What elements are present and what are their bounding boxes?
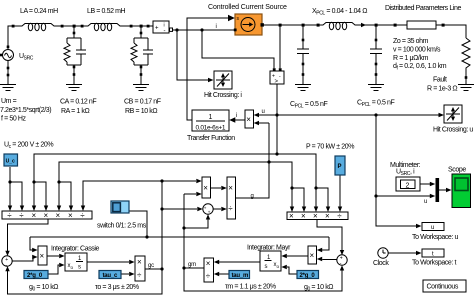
svg-text:×: × (68, 211, 73, 220)
svg-text:RB = 10 kΩ: RB = 10 kΩ (125, 108, 157, 115)
svg-text:×: × (203, 184, 208, 193)
svg-text:g: g (251, 194, 254, 200)
svg-text:f = 50 Hz: f = 50 Hz (1, 116, 27, 123)
svg-text:÷: ÷ (80, 211, 85, 220)
svg-text:LA = 0.24 mH: LA = 0.24 mH (20, 8, 58, 15)
svg-text:RA = 1 kΩ: RA = 1 kΩ (61, 108, 89, 115)
svg-text:switch 0/1: 2.5 ms: switch 0/1: 2.5 ms (97, 223, 147, 230)
svg-text:0.01e-6s+1: 0.01e-6s+1 (196, 125, 226, 132)
svg-text:7.2e3*1.5*sqrt(2/3): 7.2e3*1.5*sqrt(2/3) (0, 107, 51, 114)
svg-text:Distributed Parameters Line: Distributed Parameters Line (385, 5, 461, 12)
svg-text:R = 1e-3 Ω: R = 1e-3 Ω (427, 86, 457, 93)
svg-text:tau_c: tau_c (103, 273, 119, 279)
svg-text:×: × (206, 259, 211, 268)
svg-text:Zo = 35 ohm: Zo = 35 ohm (393, 38, 429, 45)
svg-text:÷: ÷ (228, 204, 233, 213)
svg-text:×: × (228, 184, 233, 193)
svg-text:×: × (32, 211, 37, 220)
svg-text:×: × (246, 115, 251, 124)
svg-text:+: + (208, 210, 211, 215)
svg-text:CB = 0.17 nF: CB = 0.17 nF (124, 99, 161, 106)
svg-text:Multimeter:: Multimeter: (390, 162, 421, 169)
svg-text:Continuous: Continuous (427, 284, 459, 291)
svg-text:2*g_0: 2*g_0 (300, 273, 316, 279)
svg-text:P: P (338, 164, 342, 170)
svg-text:×: × (44, 211, 49, 220)
svg-text:gm: gm (188, 262, 196, 268)
svg-text:×: × (137, 258, 142, 267)
svg-text:To Workspace: u: To Workspace: u (412, 234, 459, 241)
svg-text:s: s (265, 264, 268, 270)
svg-text:2: 2 (406, 183, 410, 190)
svg-text:Integrator: Mayr: Integrator: Mayr (247, 245, 291, 252)
svg-text:÷: ÷ (19, 211, 24, 220)
svg-text:÷: ÷ (337, 212, 342, 221)
svg-text:÷: ÷ (137, 271, 142, 280)
svg-text:u: u (262, 109, 265, 115)
svg-text:U_c: U_c (6, 159, 15, 165)
svg-text:+: + (204, 206, 207, 211)
svg-text:×: × (289, 212, 294, 221)
svg-text:×: × (56, 211, 61, 220)
svg-text:u: u (431, 225, 434, 231)
svg-text:R = 1 μΩ/km: R = 1 μΩ/km (393, 55, 429, 62)
svg-text:tau_m: tau_m (232, 273, 249, 279)
svg-text:Fault: Fault (433, 77, 447, 84)
svg-text:÷: ÷ (7, 211, 12, 220)
svg-text:gc: gc (148, 263, 154, 269)
svg-text:×: × (325, 212, 330, 221)
svg-text:i: i (236, 113, 237, 119)
svg-text:τm = 1.1 μs ± 20%: τm = 1.1 μs ± 20% (225, 284, 276, 291)
svg-text:×: × (310, 251, 315, 260)
svg-text:v = 100 000 km/s: v = 100 000 km/s (393, 47, 441, 54)
svg-text:Integrator: Cassie: Integrator: Cassie (51, 246, 100, 253)
svg-text:u: u (424, 199, 427, 205)
svg-text:Transfer Function: Transfer Function (187, 135, 235, 142)
svg-text:2*g_0: 2*g_0 (27, 273, 43, 279)
svg-text:P = 70 kW ± 20%: P = 70 kW ± 20% (306, 144, 354, 151)
svg-text:Clock: Clock (373, 260, 389, 267)
svg-text:×: × (301, 212, 306, 221)
svg-text:s: s (78, 265, 81, 271)
svg-text:-: - (164, 29, 166, 35)
svg-text:Um =: Um = (1, 98, 17, 105)
svg-text:To Workspace: t: To Workspace: t (412, 260, 457, 267)
svg-text:×: × (313, 212, 318, 221)
svg-text:i: i (216, 24, 217, 30)
svg-text:×: × (40, 252, 45, 261)
svg-text:1: 1 (209, 114, 213, 121)
svg-text:CA = 0.12 nF: CA = 0.12 nF (60, 99, 96, 106)
svg-text:LB = 0.52 mH: LB = 0.52 mH (87, 8, 126, 15)
svg-text:÷: ÷ (206, 272, 211, 281)
svg-text:τo = 3 μs ± 20%: τo = 3 μs ± 20% (95, 284, 139, 291)
svg-text:Hit Crossing: u: Hit Crossing: u (433, 127, 473, 134)
svg-text:Hit Crossing: i: Hit Crossing: i (204, 92, 242, 99)
svg-text:Controlled Current Source: Controlled Current Source (208, 4, 287, 11)
svg-text:Scope: Scope (448, 167, 466, 174)
